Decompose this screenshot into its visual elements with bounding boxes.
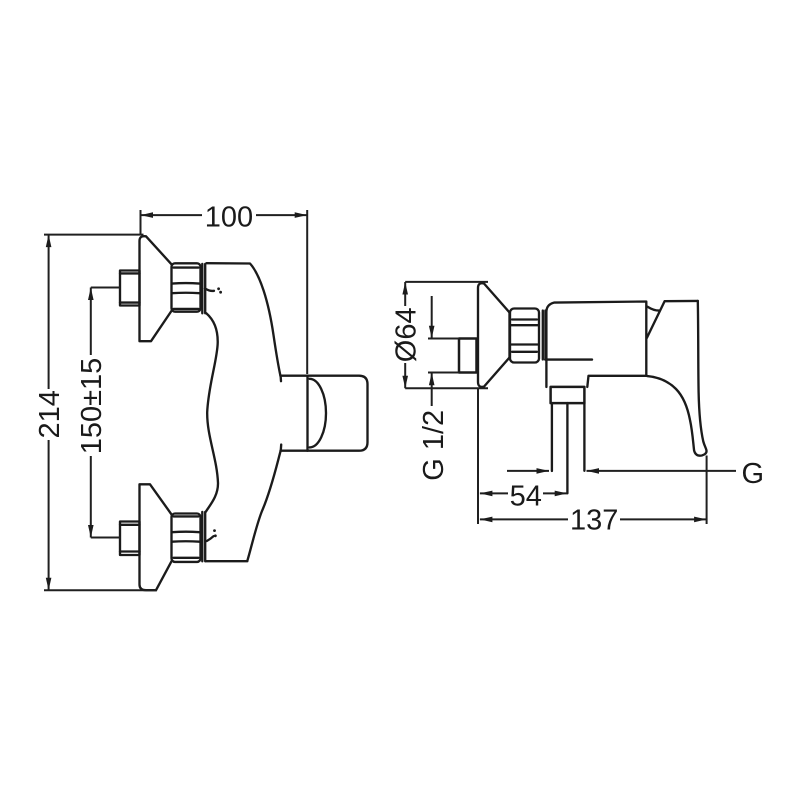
arrow 137 right: [694, 517, 707, 523]
svg-text:214: 214: [34, 390, 66, 438]
knob (front view): [308, 376, 368, 451]
dimension Ø64 lines: [405, 282, 488, 388]
arrow Ø64 top: [402, 282, 408, 295]
arrow 150 top: [88, 288, 94, 301]
arrow 54 left: [480, 491, 493, 497]
arrow G right-pointing: [537, 468, 550, 474]
arrow 214 bottom: [46, 578, 52, 591]
svg-text:G: G: [742, 458, 765, 490]
arrow Ø64 bottom: [402, 376, 408, 389]
escutcheon bottom-left (front view): [140, 484, 172, 590]
arrow 54 right: [555, 491, 568, 497]
arrow G12 down: [429, 326, 435, 339]
escutcheon top-left (front view): [140, 236, 172, 341]
wall union fitting (side view): [459, 339, 477, 373]
leader mark bottom: [207, 529, 217, 541]
dimension 150±15 lines: [91, 288, 121, 538]
arrowheads: [46, 212, 707, 590]
outlet flange (side view): [551, 387, 585, 403]
dimension 137 lines: [478, 389, 707, 525]
dimension 100 lines: [141, 210, 308, 374]
leader mark top: [205, 287, 222, 293]
washer bottom-left: [202, 512, 205, 561]
svg-text:150±15: 150±15: [76, 358, 108, 455]
arrow 214 top: [46, 235, 52, 248]
wall union fitting top-left: [120, 271, 140, 306]
G leader lines: [507, 470, 736, 472]
svg-text:G 1/2: G 1/2: [418, 410, 450, 481]
washer (side view): [543, 311, 546, 360]
arrow 137 left: [480, 517, 493, 523]
mixer body block (side view): [545, 302, 646, 388]
hex nut bottom-left: [172, 514, 201, 562]
arrow 100 right: [295, 212, 308, 218]
arrow 150 bottom: [88, 525, 94, 538]
hex nut (side view): [510, 309, 539, 363]
hex nut top-left: [172, 263, 201, 311]
dimension texts: [34, 201, 764, 536]
mixer body (front view): [206, 263, 307, 561]
arrow G12 up: [429, 373, 435, 386]
svg-text:54: 54: [510, 480, 542, 512]
dimension G 1/2 lines: [428, 296, 459, 406]
wall union fitting bottom-left: [120, 522, 140, 556]
svg-text:137: 137: [570, 505, 618, 537]
arrow G left-pointing: [587, 468, 600, 474]
svg-text:Ø64: Ø64: [391, 307, 423, 362]
escutcheon (side view): [478, 283, 510, 387]
handle blade (side view): [647, 301, 706, 456]
dimension 214 lines: [44, 235, 157, 591]
svg-text:100: 100: [205, 201, 253, 233]
arrow 100 left: [141, 212, 154, 218]
handle cap (side view): [647, 301, 698, 338]
dimension 54 lines: [480, 492, 567, 494]
outlet pipe edge lines: [552, 403, 585, 471]
washer top-left: [202, 264, 205, 313]
outlet pipe center line: [566, 403, 568, 493]
